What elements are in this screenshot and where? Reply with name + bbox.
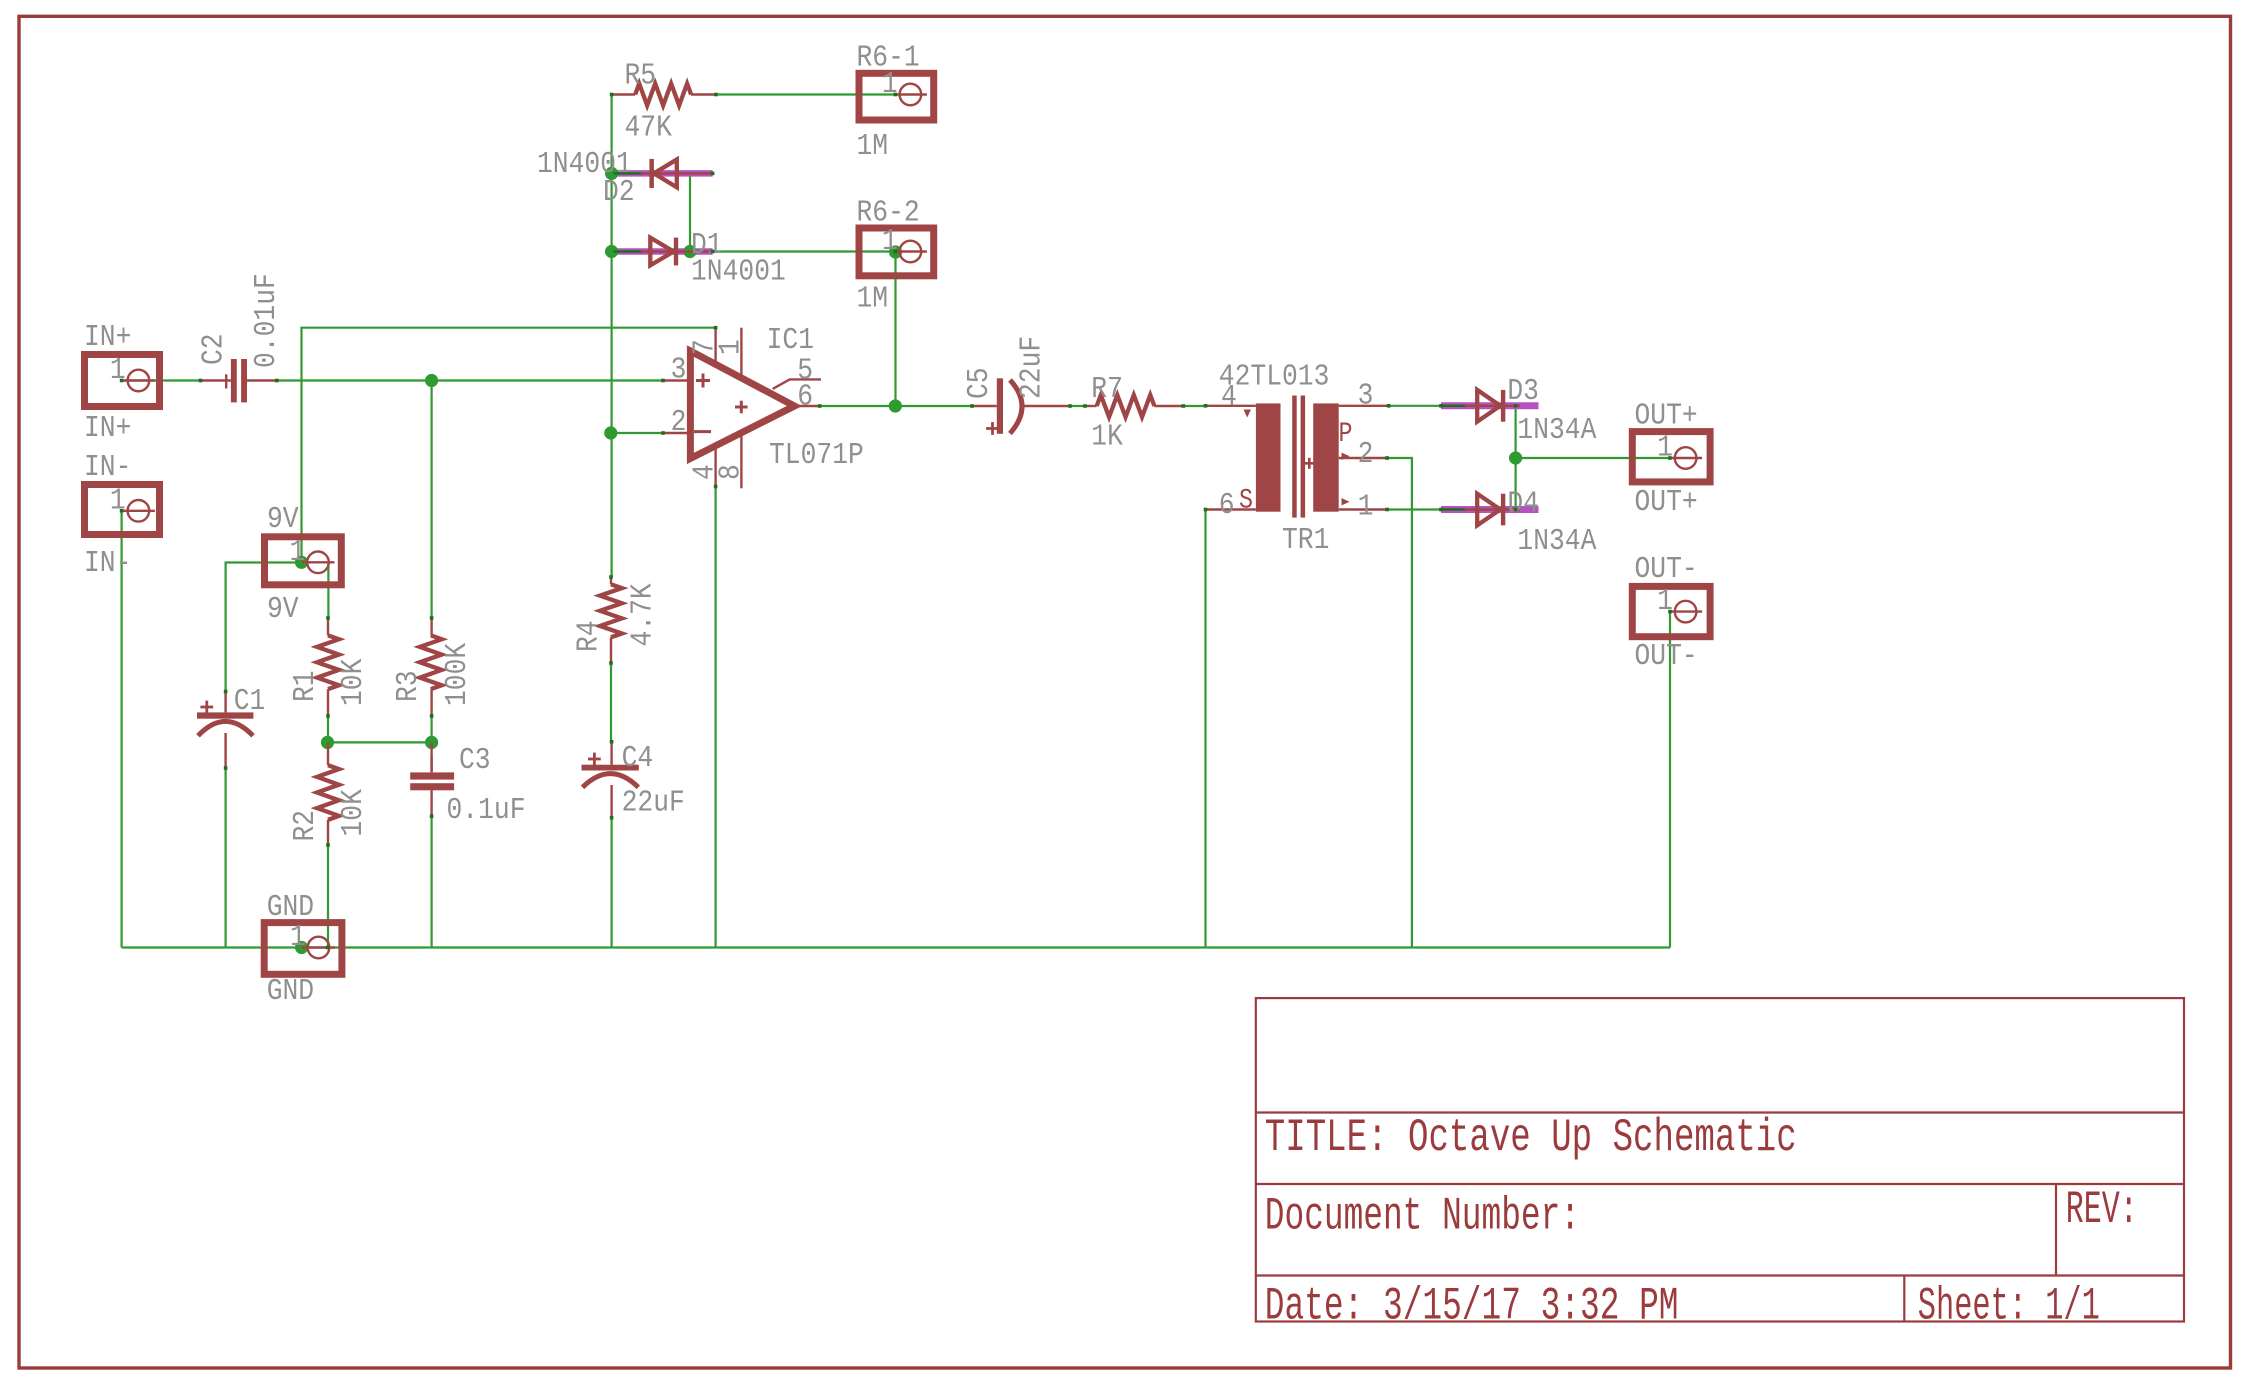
wire IC1 pin 4 to ground bus bbox=[714, 487, 716, 948]
svg-text:1K: 1K bbox=[1091, 420, 1123, 455]
title block Sheet text bbox=[1918, 1281, 2100, 1333]
connector OUT+ bbox=[1632, 399, 1710, 521]
junction node D2/D1 cathode join bbox=[683, 245, 696, 258]
diode D3 bbox=[1477, 390, 1505, 422]
label D1 bbox=[691, 228, 723, 263]
label C5 bbox=[962, 367, 997, 399]
svg-text:R6-2: R6-2 bbox=[857, 196, 920, 231]
resistor R5 leads bbox=[612, 93, 716, 95]
label R3 bbox=[391, 670, 426, 702]
connector OUT- bbox=[1632, 552, 1710, 674]
resistor R2 leads bbox=[327, 742, 329, 845]
resistor R3 leads bbox=[430, 618, 432, 716]
svg-text:R6-1: R6-1 bbox=[857, 41, 920, 76]
wire R3 to bias node bbox=[431, 716, 433, 742]
label 1N34A D4 bbox=[1517, 524, 1596, 559]
pin number 3 bbox=[671, 352, 687, 387]
svg-text:2: 2 bbox=[671, 405, 687, 440]
svg-text:1N34A: 1N34A bbox=[1517, 413, 1596, 448]
label 22uF bbox=[622, 786, 685, 821]
svg-text:1: 1 bbox=[1657, 584, 1673, 619]
svg-text:C1: C1 bbox=[234, 684, 266, 719]
label 1K bbox=[1091, 420, 1123, 455]
svg-text:1: 1 bbox=[290, 535, 306, 570]
svg-text:1: 1 bbox=[290, 920, 306, 955]
title block TITLE text bbox=[1265, 1112, 1797, 1164]
label C4 bbox=[622, 741, 654, 776]
pin number 3 tr bbox=[1358, 378, 1374, 413]
diode D2 bbox=[649, 159, 676, 188]
junction node R3/C3 bias bbox=[425, 736, 438, 749]
pin number 2 bbox=[671, 405, 687, 440]
pin number 1 ic bbox=[714, 339, 749, 355]
svg-text:IN+: IN+ bbox=[84, 320, 131, 355]
svg-text:0.01uF: 0.01uF bbox=[249, 273, 284, 368]
pin number 6 bbox=[797, 380, 813, 415]
wire C4 to ground bus bbox=[610, 818, 612, 948]
op-amp IC1 minus input marker bbox=[694, 430, 711, 433]
svg-text:1M: 1M bbox=[857, 129, 889, 164]
svg-text:100K: 100K bbox=[440, 642, 475, 706]
svg-text:D2: D2 bbox=[603, 175, 635, 210]
label C3 bbox=[459, 743, 491, 778]
label 100K bbox=[440, 642, 475, 706]
capacitor C4 plates bbox=[582, 765, 639, 788]
connector GND bbox=[264, 890, 342, 1009]
capacitor C3 plates bbox=[410, 772, 454, 790]
svg-text:C4: C4 bbox=[622, 741, 654, 776]
label 0.01uF bbox=[249, 273, 284, 368]
wire 9V connector down to R1 bbox=[327, 563, 329, 619]
resistor R1 leads bbox=[327, 618, 329, 716]
svg-text:IC1: IC1 bbox=[767, 323, 814, 358]
diode D4 lead bbox=[1441, 508, 1520, 510]
label 4.7K bbox=[626, 583, 661, 647]
wire V+ rail from IC1 pin7 to 9V connector bbox=[302, 328, 717, 563]
junction node D1 anode on rail bbox=[605, 245, 618, 258]
junction node D2 anode on rail bbox=[605, 167, 618, 180]
wire R7 to TR1 pin 4 bbox=[1183, 405, 1205, 407]
svg-text:R1: R1 bbox=[288, 670, 323, 702]
label R2 bbox=[288, 810, 323, 842]
svg-text:REV:: REV: bbox=[2066, 1184, 2138, 1236]
resistor R1 bbox=[317, 635, 339, 689]
connector IN- bbox=[84, 450, 160, 581]
svg-text:3: 3 bbox=[1358, 378, 1374, 413]
svg-text:OUT-: OUT- bbox=[1635, 552, 1698, 587]
label 22uF C5 bbox=[1015, 336, 1050, 399]
junction node IC1 pin2 on rail bbox=[604, 426, 617, 439]
wire R5 to R6-1 bbox=[716, 93, 895, 95]
capacitor C5 plus sign bbox=[986, 422, 999, 435]
connector 9V bbox=[265, 502, 342, 627]
wire TR1 pin 6 to ground bus bbox=[1204, 510, 1206, 948]
junction node R6-2 pin bbox=[889, 245, 902, 258]
transformer TR1 S marker bbox=[1239, 486, 1253, 517]
op-amp IC1 pin leads bbox=[663, 328, 820, 489]
svg-text:P: P bbox=[1339, 419, 1353, 450]
wire C1 to ground bus bbox=[225, 768, 227, 948]
svg-text:0.1uF: 0.1uF bbox=[447, 793, 526, 828]
pin number 4 tr bbox=[1221, 380, 1237, 415]
label C1 bbox=[234, 684, 266, 719]
svg-text:9V: 9V bbox=[267, 592, 299, 627]
pin connection points bbox=[120, 93, 1672, 950]
svg-text:22uF: 22uF bbox=[622, 786, 685, 821]
resistor R2 bbox=[317, 765, 339, 820]
svg-text:TITLE: Octave Up Schematic: TITLE: Octave Up Schematic bbox=[1265, 1112, 1797, 1164]
svg-text:GND: GND bbox=[267, 974, 314, 1009]
svg-text:1: 1 bbox=[1358, 489, 1374, 524]
svg-text:S: S bbox=[1239, 486, 1253, 517]
capacitor C4 plus sign bbox=[588, 753, 601, 766]
svg-text:IN+: IN+ bbox=[84, 411, 131, 446]
svg-text:TL071P: TL071P bbox=[769, 438, 864, 473]
svg-text:TR1: TR1 bbox=[1282, 523, 1329, 558]
pin number 2 tr bbox=[1358, 437, 1374, 472]
label R1 bbox=[288, 670, 323, 702]
transformer TR1 plus marker bbox=[1304, 458, 1315, 469]
wire IN+ to C2 bbox=[122, 379, 201, 381]
svg-text:1N34A: 1N34A bbox=[1517, 524, 1596, 559]
wire D3 cathode down to D4 cathode bbox=[1514, 406, 1516, 510]
svg-text:OUT+: OUT+ bbox=[1635, 399, 1698, 434]
wire TR1 pin 3 to D3 bbox=[1389, 405, 1441, 407]
capacitor C4 leads bbox=[610, 742, 612, 818]
capacitor C2 leads bbox=[201, 374, 277, 388]
capacitor C5 leads bbox=[972, 405, 1070, 407]
label R5 bbox=[625, 59, 657, 94]
svg-text:IN-: IN- bbox=[84, 450, 131, 485]
svg-text:GND: GND bbox=[267, 890, 314, 925]
label 0.1uF bbox=[447, 793, 526, 828]
resistor R3 bbox=[420, 635, 442, 689]
svg-text:1N4001: 1N4001 bbox=[691, 254, 786, 289]
svg-text:R5: R5 bbox=[625, 59, 657, 94]
wire R1 to bias node bbox=[327, 716, 329, 742]
wire ground bus bbox=[122, 946, 1670, 948]
junction node rectifier output bbox=[1509, 451, 1522, 464]
capacitor C3 leads bbox=[430, 742, 432, 816]
svg-text:OUT+: OUT+ bbox=[1635, 485, 1698, 520]
svg-text:R3: R3 bbox=[391, 670, 426, 702]
svg-text:6: 6 bbox=[1219, 488, 1235, 523]
wire IN- to ground bus bbox=[120, 511, 122, 948]
transformer TR1 primary winding bbox=[1256, 403, 1281, 511]
junction node IC1 output bbox=[889, 399, 902, 412]
label D4 bbox=[1507, 486, 1539, 521]
op-amp IC1 center plus marker bbox=[735, 401, 748, 414]
highlighted net segment at D1 bbox=[614, 248, 713, 255]
wire IC1 output to C5 bbox=[820, 405, 972, 407]
junction node 9V supply bbox=[295, 556, 308, 569]
pin number 7 bbox=[688, 339, 723, 355]
label D2 bbox=[603, 175, 635, 210]
pin number 1 tr bbox=[1358, 489, 1374, 524]
svg-text:D3: D3 bbox=[1507, 374, 1539, 409]
svg-text:1M: 1M bbox=[857, 282, 889, 317]
svg-text:C2: C2 bbox=[197, 333, 232, 365]
capacitor C1 plus sign bbox=[200, 701, 213, 714]
svg-text:1: 1 bbox=[110, 483, 126, 518]
label IC1 bbox=[767, 323, 814, 358]
highlighted net segment at D2 bbox=[614, 170, 713, 177]
label 47K bbox=[625, 110, 673, 145]
wire 9V connector to C1 positive lead bbox=[226, 563, 302, 692]
svg-text:1: 1 bbox=[1657, 431, 1673, 466]
label TL071P bbox=[769, 438, 864, 473]
title block frame bbox=[1256, 998, 2184, 1321]
svg-text:Sheet: 1/1: Sheet: 1/1 bbox=[1918, 1281, 2100, 1333]
svg-text:IN-: IN- bbox=[84, 546, 131, 581]
label 1N34A D3 bbox=[1517, 413, 1596, 448]
svg-text:R2: R2 bbox=[288, 810, 323, 842]
label R7 bbox=[1091, 372, 1123, 407]
pin number 6 tr bbox=[1219, 488, 1235, 523]
resistor R7 bbox=[1097, 395, 1155, 417]
wire bias node R1/R2 to R3/C3 bbox=[328, 741, 432, 743]
capacitor C1 plates bbox=[197, 712, 253, 735]
wire C3 to ground bus bbox=[431, 816, 433, 947]
highlighted net segment at D3 bbox=[1441, 402, 1539, 409]
svg-text:Date: 3/15/17 3:32 PM: Date: 3/15/17 3:32 PM bbox=[1265, 1281, 1679, 1333]
pin number 5 bbox=[797, 354, 813, 389]
op-amp IC1 pin5 offset line bbox=[773, 379, 821, 389]
highlighted net segment at D4 bbox=[1441, 506, 1539, 513]
svg-text:OUT-: OUT- bbox=[1635, 639, 1698, 674]
label 1N4001 D1 bbox=[691, 254, 786, 289]
label D3 bbox=[1507, 374, 1539, 409]
label R4 bbox=[572, 620, 607, 652]
label R2 10K bbox=[336, 789, 371, 837]
wire R4 to C4 bbox=[610, 663, 612, 742]
wire C5 to R7 bbox=[1070, 405, 1085, 407]
svg-text:R4: R4 bbox=[572, 620, 607, 652]
wire D1 to R6-2 bbox=[713, 250, 896, 252]
transformer TR1 phase arrow pin4 bbox=[1244, 410, 1252, 418]
capacitor C5 plates bbox=[997, 378, 1022, 434]
svg-text:6: 6 bbox=[797, 380, 813, 415]
wire C2 to IC1 pin3 noninverting input bbox=[277, 379, 663, 381]
wire R6-2 down to IC1 output node bbox=[894, 252, 896, 406]
wire TR1 pin 1 to D4 bbox=[1387, 508, 1441, 510]
wire D2 cathode down to D1 row bbox=[689, 174, 691, 252]
svg-text:Document Number:: Document Number: bbox=[1265, 1191, 1580, 1243]
wire rectifier node to OUT+ bbox=[1516, 457, 1670, 459]
label TR1 bbox=[1282, 523, 1329, 558]
wire TR1 pin 2 to ground bus bbox=[1387, 458, 1412, 948]
svg-text:47K: 47K bbox=[625, 110, 673, 145]
op-amp IC1 body bbox=[690, 351, 794, 459]
diode D1 bbox=[650, 238, 678, 266]
svg-text:22uF: 22uF bbox=[1015, 336, 1050, 399]
wire diode rail to IC1 pin2 inverting input bbox=[611, 432, 663, 434]
resistor R4 leads bbox=[610, 577, 612, 663]
svg-text:C5: C5 bbox=[962, 367, 997, 399]
transformer TR1 P marker bbox=[1339, 419, 1353, 450]
svg-text:R7: R7 bbox=[1091, 372, 1123, 407]
wire feedback rail R5/D2/D1 down to R4 bbox=[610, 95, 612, 578]
connector IN+ bbox=[84, 320, 160, 446]
svg-text:1: 1 bbox=[110, 353, 126, 388]
svg-text:10K: 10K bbox=[336, 658, 371, 706]
label C2 bbox=[197, 333, 232, 365]
junction node GND pin bbox=[295, 941, 308, 954]
transformer TR1 pin leads bbox=[1206, 406, 1389, 510]
connector R6-1 bbox=[857, 41, 934, 165]
junction node signal branch bbox=[425, 374, 438, 387]
svg-text:9V: 9V bbox=[267, 502, 299, 537]
wire R2 to ground bus bbox=[327, 845, 329, 948]
transformer TR1 secondary winding bbox=[1313, 403, 1339, 511]
resistor R4 bbox=[600, 584, 622, 637]
transformer TR1 core bbox=[1292, 396, 1305, 518]
label 42TL013 bbox=[1219, 359, 1330, 394]
capacitor C1 leads bbox=[224, 692, 226, 769]
svg-text:D4: D4 bbox=[1507, 486, 1539, 521]
title block Document Number text bbox=[1265, 1191, 1580, 1243]
capacitor C2 plates bbox=[231, 359, 247, 402]
svg-text:42TL013: 42TL013 bbox=[1219, 359, 1330, 394]
pin number 8 bbox=[714, 464, 749, 480]
wire OUT- to ground bus bbox=[1669, 612, 1671, 948]
op-amp IC1 plus input marker bbox=[696, 374, 710, 388]
label 1N4001 D2 bbox=[537, 147, 632, 182]
wire signal node down to R3 bbox=[431, 381, 433, 619]
pin number 4 bbox=[688, 464, 723, 480]
junction node R1/R2 bias bbox=[321, 736, 334, 749]
transformer TR1 phase arrow pin1 bbox=[1342, 498, 1350, 506]
label R1 10K bbox=[336, 658, 371, 706]
diode D4 bbox=[1477, 494, 1505, 526]
svg-text:C3: C3 bbox=[459, 743, 491, 778]
diode D3 lead bbox=[1441, 405, 1520, 407]
svg-text:8: 8 bbox=[714, 464, 749, 480]
resistor R7 leads bbox=[1085, 405, 1183, 407]
connector R6-2 bbox=[857, 196, 934, 317]
svg-text:3: 3 bbox=[671, 352, 687, 387]
resistor R5 bbox=[635, 84, 691, 106]
svg-text:2: 2 bbox=[1358, 437, 1374, 472]
svg-text:1: 1 bbox=[714, 339, 749, 355]
title block Date text bbox=[1265, 1281, 1679, 1333]
transformer TR1 phase arrow pin2 bbox=[1342, 453, 1350, 461]
diode D2 lead bbox=[614, 172, 713, 174]
title block REV text bbox=[2066, 1184, 2138, 1236]
diode D1 lead bbox=[614, 250, 713, 252]
svg-text:10K: 10K bbox=[336, 789, 371, 837]
svg-text:4.7K: 4.7K bbox=[626, 583, 661, 647]
